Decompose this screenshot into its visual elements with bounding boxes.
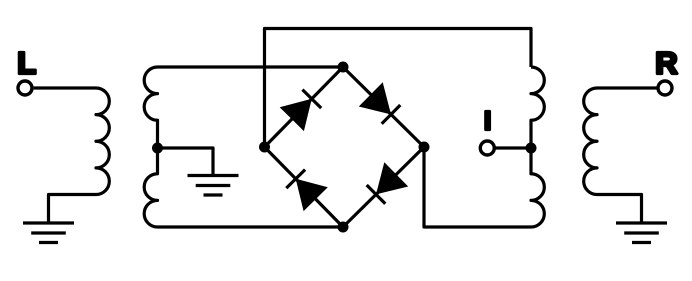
wire center tap to ground — [158, 148, 214, 174]
transformer T1 secondary winding — [144, 67, 157, 227]
diode ring edge node C to node B — [265, 147, 344, 227]
wire L terminal to T1 primary — [34, 86, 96, 89]
diode D1 — [280, 99, 312, 131]
wire node B to top rail to T2 secondary top — [265, 29, 532, 148]
wire T1 primary bottom to ground — [49, 195, 97, 223]
output terminal R — [658, 81, 672, 95]
svg-text:I: I — [484, 105, 491, 135]
junction node A — [338, 62, 349, 73]
svg-text:R: R — [655, 46, 677, 81]
diode ring edge node D to node C — [343, 147, 424, 227]
wire T2 primary bottom to ground — [597, 195, 642, 223]
transformer T2 primary winding — [584, 88, 657, 195]
svg-text:L: L — [17, 46, 36, 81]
junction node D — [419, 142, 430, 153]
ground (T1 center tap) — [188, 176, 239, 196]
ground (T2 primary) — [616, 223, 667, 243]
wire T2 secondary bottom to node D — [424, 147, 531, 227]
junction node B — [259, 142, 270, 153]
input terminal L — [18, 81, 32, 95]
diode D2 — [359, 82, 391, 114]
carrier terminal I — [480, 141, 494, 155]
ground (T1 primary) — [23, 223, 74, 243]
junction node C — [338, 222, 349, 233]
wire T1 secondary top to node A — [158, 65, 344, 68]
diode ring edge node A to node D — [343, 67, 424, 147]
diode ring edge node B to node A — [265, 67, 344, 147]
transformer T1 primary winding — [96, 88, 109, 195]
wire center tap to I terminal — [495, 146, 531, 149]
junction T2 center tap — [526, 143, 537, 154]
transformer T2 secondary winding — [531, 67, 544, 227]
diode D4 — [296, 179, 328, 211]
junction T1 center tap — [152, 143, 163, 154]
wire T1 secondary bottom to node C — [158, 225, 344, 228]
diode D3 — [376, 162, 408, 194]
